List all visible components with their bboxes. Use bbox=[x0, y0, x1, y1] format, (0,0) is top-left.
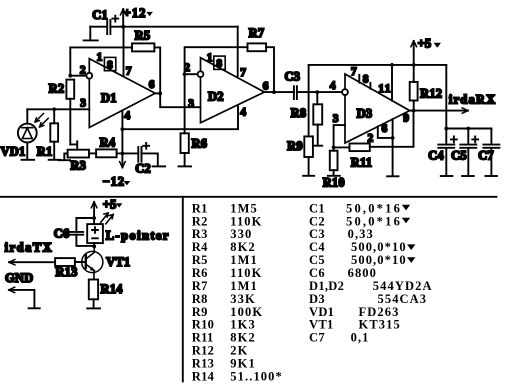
svg-text:2: 2 bbox=[184, 62, 190, 74]
wire LED bottom bbox=[93, 243, 95, 246]
svg-text:110K: 110K bbox=[230, 214, 262, 228]
svg-text:0,33: 0,33 bbox=[348, 227, 374, 241]
svg-text:9: 9 bbox=[403, 112, 409, 124]
resistor R6 bbox=[181, 133, 189, 153]
op-amp D2 bbox=[201, 58, 265, 123]
wire R9 bottom bbox=[308, 157, 310, 175]
wire R9 riser from rail bbox=[308, 65, 310, 136]
C4 ground bar bbox=[441, 175, 453, 177]
-12V supply stem with down arrow bbox=[121, 153, 123, 167]
wire R8 bottom stub bbox=[317, 125, 319, 146]
svg-text:1M1: 1M1 bbox=[230, 279, 258, 293]
svg-text:C7: C7 bbox=[478, 149, 494, 163]
R10 ground bar bbox=[328, 175, 340, 177]
svg-text:R6: R6 bbox=[192, 266, 208, 280]
svg-text:1: 1 bbox=[207, 52, 213, 64]
capacitor C1 bbox=[107, 20, 110, 34]
C5 voltage triangle bbox=[407, 257, 415, 263]
wire R2 bottom to R3 wiper bbox=[69, 99, 71, 145]
svg-text:R9: R9 bbox=[287, 139, 303, 153]
C2 ground bar bbox=[153, 165, 166, 167]
node LED bottom / C6 / collector bbox=[92, 245, 96, 249]
capacitor C7 bbox=[483, 129, 499, 176]
R3 left terminal bbox=[64, 154, 67, 160]
R9 ground bar bbox=[303, 175, 314, 177]
capacitor C6 bbox=[69, 232, 83, 235]
svg-text:R13: R13 bbox=[192, 356, 214, 370]
node pin2/pin6 bbox=[391, 136, 395, 140]
wire C6 bottom branch bbox=[76, 235, 94, 246]
+12 polarity triangle bbox=[146, 12, 153, 16]
svg-text:2: 2 bbox=[80, 65, 86, 77]
wire pin2 D1 bbox=[70, 75, 86, 77]
capacitor C3 bbox=[294, 86, 297, 99]
svg-text:7: 7 bbox=[351, 66, 357, 78]
LED light arrow 1 bbox=[101, 213, 109, 223]
node D3 output bbox=[412, 109, 416, 113]
capacitor C5 bbox=[460, 129, 476, 176]
resistor R14 bbox=[89, 280, 98, 300]
GND ground bar bbox=[29, 307, 40, 309]
VT1 emitter bbox=[86, 264, 94, 279]
D1 pin 8 box bbox=[104, 57, 115, 70]
svg-text:+12: +12 bbox=[124, 6, 147, 20]
VD1 light arrow 1 bbox=[35, 113, 44, 122]
D3 pin 2 link bbox=[378, 127, 393, 138]
capacitor C4 bbox=[438, 129, 454, 176]
wire R12 bottom bbox=[413, 101, 415, 111]
svg-text:8: 8 bbox=[216, 58, 222, 70]
wire ground to C1 bbox=[90, 26, 107, 28]
svg-text:2K: 2K bbox=[230, 344, 248, 358]
svg-text:FD263: FD263 bbox=[359, 305, 400, 319]
svg-text:VD1: VD1 bbox=[1, 144, 26, 158]
wire R7 to D2 output bbox=[266, 47, 274, 92]
wire D1 feedback riser bbox=[70, 47, 132, 75]
node D1 output bbox=[158, 92, 162, 96]
R6 ground bar bbox=[179, 165, 192, 167]
svg-text:R13: R13 bbox=[55, 265, 77, 279]
svg-text:1K3: 1K3 bbox=[230, 318, 256, 332]
svg-text:330: 330 bbox=[230, 227, 252, 241]
node D2 output bbox=[272, 90, 276, 94]
wire D3 pin6 ground drop bbox=[392, 119, 394, 176]
svg-text:544YD2A: 544YD2A bbox=[373, 279, 433, 293]
svg-text:R14: R14 bbox=[192, 369, 215, 383]
wire R6 riser bbox=[184, 74, 186, 133]
svg-text:D3: D3 bbox=[357, 107, 373, 121]
svg-text:C5: C5 bbox=[451, 149, 467, 163]
svg-text:C6: C6 bbox=[54, 226, 70, 240]
C2 voltage triangle bbox=[402, 218, 410, 224]
+5V supply stem with up arrow (TX) bbox=[93, 202, 95, 224]
svg-text:R7: R7 bbox=[249, 26, 265, 40]
svg-text:irdaTX: irdaTX bbox=[5, 241, 54, 255]
svg-text:100K: 100K bbox=[230, 305, 263, 319]
svg-text:C1: C1 bbox=[309, 201, 325, 215]
svg-text:11: 11 bbox=[378, 83, 391, 95]
node pin11/rail bbox=[390, 63, 394, 67]
svg-text:C4: C4 bbox=[428, 149, 444, 163]
svg-text:C7: C7 bbox=[309, 331, 325, 345]
svg-text:C2: C2 bbox=[135, 162, 151, 176]
svg-text:VT1: VT1 bbox=[309, 318, 334, 332]
node D2 pin2 junction bbox=[183, 72, 187, 76]
wire D2 output to C3 bbox=[264, 91, 294, 93]
svg-text:33K: 33K bbox=[230, 292, 256, 306]
svg-text:3: 3 bbox=[80, 98, 86, 110]
LED plus sign bbox=[92, 227, 98, 233]
svg-text:R4: R4 bbox=[100, 136, 116, 150]
resistor R2 bbox=[66, 80, 74, 99]
wire output to irdaRX arrow bbox=[414, 110, 468, 112]
node C4 top bbox=[444, 127, 448, 131]
resistor R4 bbox=[96, 149, 117, 157]
svg-text:C2: C2 bbox=[309, 214, 325, 228]
wire D2 pin7 drop bbox=[237, 27, 239, 76]
svg-text:50,0*16: 50,0*16 bbox=[346, 201, 402, 215]
node D1 pin4 / -12 rail bbox=[121, 127, 125, 131]
svg-text:C4: C4 bbox=[309, 240, 325, 254]
wire -12 rail to D2 pin4 bbox=[122, 106, 238, 130]
svg-text:C3: C3 bbox=[285, 70, 301, 84]
+12V supply stem with up arrow bbox=[122, 9, 124, 27]
resistor R12 bbox=[410, 82, 418, 101]
svg-text:D1: D1 bbox=[101, 91, 117, 105]
svg-text:R7: R7 bbox=[192, 279, 208, 293]
resistor R5 bbox=[132, 43, 154, 51]
svg-text:6: 6 bbox=[149, 79, 155, 91]
wire rail right corner down to caps bbox=[445, 65, 447, 129]
svg-text:GND: GND bbox=[5, 271, 33, 285]
wire base bbox=[75, 261, 85, 263]
wire C1 to +12 node bbox=[110, 26, 123, 28]
wire R3 to R4 bbox=[89, 152, 96, 154]
transistor VT1 circle bbox=[82, 251, 103, 272]
svg-text:irdaRX: irdaRX bbox=[449, 93, 496, 107]
VT1 base bar bbox=[85, 255, 87, 268]
svg-text:VT1: VT1 bbox=[106, 255, 130, 269]
svg-text:C6: C6 bbox=[309, 266, 325, 280]
node R1 top bbox=[52, 107, 56, 111]
wire D1 apex to node bbox=[155, 92, 160, 94]
svg-text:KT315: KT315 bbox=[359, 318, 401, 332]
VD1 light arrow 2 bbox=[40, 118, 49, 127]
C5 plus sign bbox=[472, 137, 478, 143]
svg-text:C1: C1 bbox=[92, 8, 108, 22]
+5 polarity triangle (top) bbox=[434, 43, 441, 48]
svg-text:6: 6 bbox=[382, 123, 388, 135]
svg-text:9K1: 9K1 bbox=[230, 356, 256, 370]
svg-text:R11: R11 bbox=[351, 155, 372, 169]
D1 inverting bubble bbox=[86, 73, 92, 79]
wire D1 pin7 drop bbox=[123, 27, 125, 76]
op-amp D1 bbox=[89, 59, 155, 128]
C4 plus sign bbox=[451, 137, 457, 143]
wire irdaTX with left arrow bbox=[9, 261, 55, 263]
svg-text:R10: R10 bbox=[192, 318, 214, 332]
+5V supply stem with up arrow bbox=[413, 41, 415, 65]
LED minus sign bbox=[92, 237, 98, 239]
svg-text:1: 1 bbox=[97, 52, 103, 64]
VT1 emitter arrow bbox=[90, 267, 95, 271]
comparator D3 bbox=[345, 74, 410, 143]
ground (C1 left plate) bbox=[84, 27, 98, 41]
wire D1 output to D2 pin3 bbox=[160, 93, 200, 107]
svg-text:R2: R2 bbox=[49, 81, 65, 95]
svg-text:7: 7 bbox=[240, 67, 246, 79]
R1 ground bar bbox=[49, 159, 61, 161]
-12 polarity triangle bbox=[124, 181, 131, 185]
node +5/C6/LED bbox=[92, 216, 96, 220]
D3 inverting bubble bbox=[342, 89, 348, 95]
table left border bbox=[182, 197, 184, 382]
wire node to R11 bbox=[334, 146, 350, 148]
svg-text:8: 8 bbox=[107, 59, 113, 71]
wire VD1 top drop bbox=[26, 109, 28, 123]
separator line bbox=[0, 196, 496, 198]
svg-text:R2: R2 bbox=[192, 214, 208, 228]
svg-text:0,1: 0,1 bbox=[351, 331, 370, 345]
wire R4 to -12 node bbox=[117, 152, 139, 154]
svg-text:R5: R5 bbox=[192, 253, 208, 267]
wire D2 feedback riser bbox=[185, 47, 248, 74]
resistor R11 bbox=[350, 144, 370, 152]
C1 plus sign bbox=[112, 16, 118, 22]
svg-text:R5: R5 bbox=[135, 29, 151, 43]
D2 pin 8 box bbox=[214, 56, 225, 69]
svg-text:2: 2 bbox=[368, 132, 374, 144]
wire C6 top branch bbox=[76, 218, 94, 232]
svg-text:+5: +5 bbox=[103, 198, 117, 212]
C1 voltage triangle bbox=[402, 205, 410, 211]
R3 ground bar bbox=[59, 159, 70, 161]
wire R11 to output riser bbox=[370, 111, 414, 147]
wire R1 top bbox=[53, 109, 55, 123]
wire D1 input (pin3) bbox=[27, 108, 89, 110]
svg-text:R8: R8 bbox=[291, 106, 307, 120]
C7 ground bar bbox=[485, 175, 497, 177]
wire R14 bottom bbox=[93, 299, 95, 308]
R8 ground bar bbox=[313, 145, 322, 147]
wire D1 pin4 drop bbox=[121, 110, 123, 153]
svg-text:3: 3 bbox=[188, 98, 194, 110]
svg-text:4: 4 bbox=[330, 80, 336, 92]
wire R5 to D1 output bbox=[154, 47, 160, 93]
svg-text:6: 6 bbox=[263, 80, 269, 92]
C2 plus sign bbox=[143, 143, 149, 149]
svg-text:R9: R9 bbox=[192, 305, 208, 319]
svg-text:C3: C3 bbox=[309, 227, 325, 241]
node pin3/R10/R11 bbox=[332, 146, 336, 150]
C5 ground bar bbox=[462, 175, 474, 177]
LED light arrow 2 bbox=[106, 214, 114, 224]
VD1 bottom lead bbox=[26, 142, 28, 159]
svg-text:D3: D3 bbox=[309, 292, 325, 306]
svg-text:D1,D2: D1,D2 bbox=[309, 279, 344, 293]
node +5/rail/R12 bbox=[412, 63, 416, 67]
wire D3 pin 11 drop bbox=[391, 65, 393, 101]
wire R12 top bbox=[413, 65, 415, 82]
wire D2 pin2 bbox=[185, 73, 198, 75]
svg-text:8: 8 bbox=[363, 73, 369, 85]
C4 voltage triangle bbox=[407, 244, 415, 250]
VD1 ground bar bbox=[22, 159, 35, 161]
wire node to R10 bbox=[333, 147, 335, 150]
D3 pin 8 tick bbox=[369, 83, 371, 89]
svg-text:R10: R10 bbox=[323, 175, 345, 189]
wire caps distribution bbox=[446, 128, 491, 130]
svg-text:R8: R8 bbox=[192, 292, 208, 306]
wire D3 top rail bbox=[309, 64, 447, 66]
GND drop bbox=[33, 290, 35, 308]
resistor R13 bbox=[55, 258, 75, 266]
GND wire with left arrow bbox=[9, 289, 34, 291]
svg-text:R12: R12 bbox=[420, 86, 442, 100]
svg-text:R11: R11 bbox=[192, 331, 214, 345]
wire +12 rail to D2 pin7 bbox=[123, 26, 238, 28]
svg-text:VD1: VD1 bbox=[309, 305, 334, 319]
wire R6 bottom bbox=[184, 153, 186, 166]
svg-text:R14: R14 bbox=[101, 282, 124, 296]
svg-text:554CA3: 554CA3 bbox=[378, 292, 428, 306]
svg-text:51..100*: 51..100* bbox=[230, 369, 283, 383]
svg-text:R1: R1 bbox=[37, 144, 53, 158]
svg-text:7: 7 bbox=[126, 66, 132, 78]
wire D3 pin3 bbox=[334, 125, 345, 147]
svg-text:C5: C5 bbox=[309, 253, 325, 267]
R3 wiper link bbox=[70, 141, 77, 149]
pin6 ground bar bbox=[387, 175, 398, 177]
svg-text:R6: R6 bbox=[192, 137, 208, 151]
svg-text:6800: 6800 bbox=[348, 266, 377, 280]
resistor R10 bbox=[330, 151, 338, 171]
node C5 top bbox=[466, 127, 470, 131]
svg-text:1M1: 1M1 bbox=[230, 253, 258, 267]
photodiode VD1 bbox=[18, 124, 37, 143]
R14 ground bar bbox=[87, 307, 100, 309]
node R4/C2/-12 bbox=[121, 152, 125, 156]
svg-text:110K: 110K bbox=[230, 266, 262, 280]
svg-text:−12: −12 bbox=[103, 174, 125, 188]
wire D3 apex to node bbox=[410, 110, 414, 112]
D2 inverting bubble bbox=[198, 71, 204, 77]
node +12/C1 junction bbox=[121, 25, 125, 29]
resistor R7 bbox=[248, 43, 267, 51]
svg-text:50,0*16: 50,0*16 bbox=[346, 214, 402, 228]
svg-text:R4: R4 bbox=[192, 240, 208, 254]
svg-text:4: 4 bbox=[240, 107, 246, 119]
VT1 collector bbox=[86, 246, 94, 259]
svg-text:8K2: 8K2 bbox=[230, 331, 256, 345]
svg-text:R1: R1 bbox=[192, 201, 208, 215]
capacitor C2 bbox=[138, 147, 141, 162]
wire R8 top bbox=[316, 92, 318, 104]
node R2/pin2 junction bbox=[68, 74, 72, 78]
svg-text:R3: R3 bbox=[70, 158, 86, 172]
svg-text:+5: +5 bbox=[418, 37, 432, 51]
LED L-pointer box bbox=[87, 224, 103, 243]
resistor R1 bbox=[50, 123, 58, 141]
svg-text:8K2: 8K2 bbox=[230, 240, 256, 254]
resistor R8 bbox=[313, 104, 322, 124]
potentiometer R3 bbox=[68, 150, 89, 158]
wire C2 right to ground bbox=[142, 153, 158, 166]
wire C3 to D3 pin4 bbox=[297, 91, 342, 93]
svg-text:3: 3 bbox=[333, 113, 339, 125]
svg-text:R12: R12 bbox=[192, 344, 214, 358]
svg-text:R3: R3 bbox=[192, 227, 208, 241]
svg-text:1M5: 1M5 bbox=[230, 201, 258, 215]
svg-text:D2: D2 bbox=[208, 90, 224, 104]
node R8 top bbox=[315, 90, 319, 94]
resistor R9 bbox=[304, 136, 313, 157]
wire R1 bottom bbox=[53, 142, 55, 159]
svg-text:4: 4 bbox=[124, 110, 130, 122]
D3 pin 7 tick bbox=[358, 75, 360, 83]
+5 polarity triangle (TX) bbox=[116, 203, 123, 207]
svg-text:L-pointer: L-pointer bbox=[106, 228, 170, 242]
svg-text:500,0*10: 500,0*10 bbox=[351, 240, 407, 254]
svg-text:500,0*10: 500,0*10 bbox=[351, 253, 407, 267]
wire R10 bottom bbox=[333, 170, 335, 175]
